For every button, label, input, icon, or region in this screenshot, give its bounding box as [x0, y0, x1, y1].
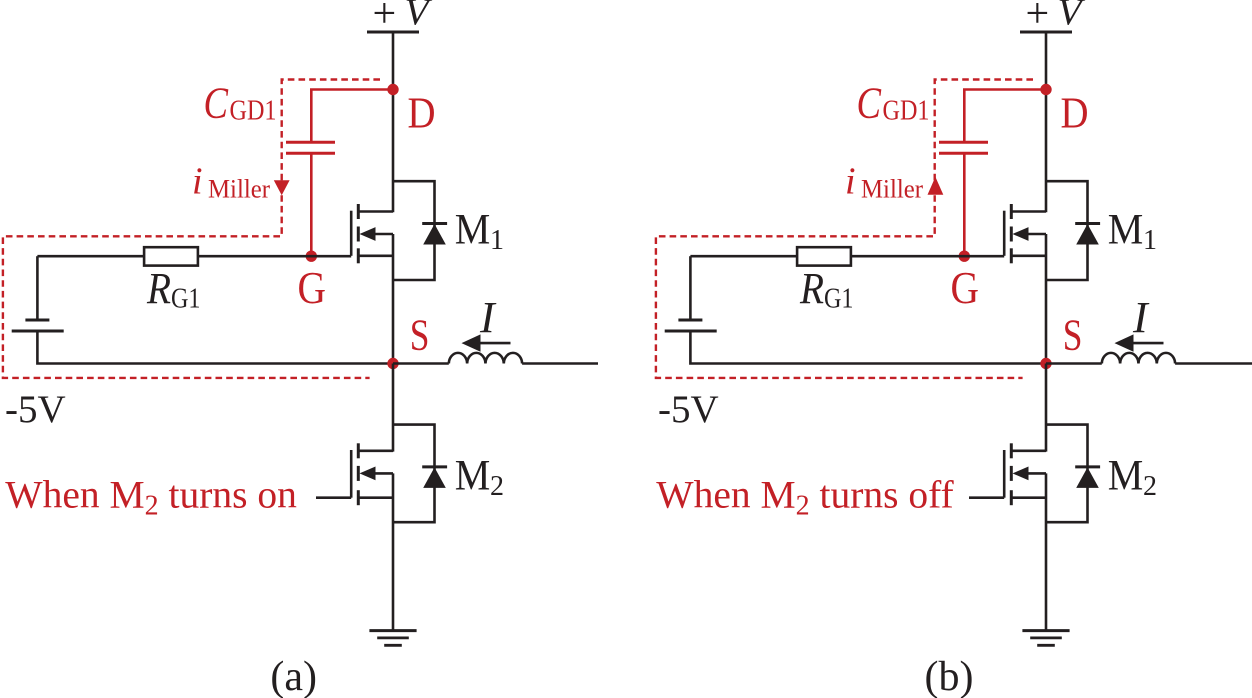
wire: node S to inductor	[1046, 362, 1102, 365]
wire: M1 source lead	[1011, 255, 1046, 258]
svg-text:When M2 turns on: When M2 turns on	[5, 472, 297, 521]
resistor R_G1	[144, 247, 198, 265]
transistor M2 gate bar	[350, 450, 353, 498]
svg-text:(a): (a)	[270, 654, 317, 698]
wire: M2 drain tee to body-diode branch	[1046, 425, 1088, 523]
wire: red C_GD1 bottom to node G	[963, 153, 966, 256]
battery -5V source	[12, 320, 64, 331]
capacitor C_GD1	[286, 142, 335, 153]
svg-text:S: S	[1063, 311, 1083, 360]
wire: M2 drain lead	[358, 449, 393, 452]
label R_G1	[146, 264, 200, 315]
svg-text:i: i	[192, 161, 203, 203]
wire: M1 drain tee to body-diode branch	[1046, 181, 1088, 280]
label R_G1	[799, 264, 853, 315]
wire: battery top lead	[36, 256, 39, 320]
svg-text:+: +	[1026, 0, 1050, 37]
wire: inductor to load	[522, 362, 598, 365]
svg-text:Miller: Miller	[208, 174, 270, 204]
svg-text:When M2 turns off: When M2 turns off	[656, 472, 954, 521]
svg-text:G1: G1	[824, 283, 854, 315]
svg-text:I: I	[479, 293, 497, 342]
label C_GD1	[204, 79, 277, 128]
current I arrow	[1115, 334, 1164, 351]
svg-text:G: G	[951, 263, 980, 313]
transistor M1 channel bars	[357, 204, 360, 263]
body diode of M2	[422, 467, 447, 488]
wire: M1 source down to node S	[392, 234, 395, 364]
current I arrow	[462, 334, 511, 351]
body diode of M1	[1075, 224, 1100, 245]
wire: gate drive rail	[37, 255, 351, 258]
svg-text:S: S	[410, 311, 430, 360]
wire: node S down to M2 drain	[392, 364, 395, 452]
wire: M2 drain lead	[1011, 449, 1046, 452]
svg-text:i: i	[845, 161, 856, 203]
inductor L	[1102, 353, 1175, 364]
capacitor C_GD1	[939, 142, 988, 153]
label i_Miller	[845, 161, 923, 204]
svg-text:V: V	[1058, 0, 1086, 34]
svg-text:M: M	[1108, 207, 1144, 254]
wire: battery top lead	[689, 256, 692, 320]
label M2	[455, 452, 504, 502]
wire: +V rail down to M1 drain	[392, 32, 395, 212]
svg-text:I: I	[1132, 293, 1150, 342]
wire: red C_GD1 bottom to node G	[310, 153, 313, 256]
label M1	[1108, 207, 1157, 257]
wire: battery bottom to node S	[37, 331, 393, 364]
red dashed Miller current loop	[656, 80, 1033, 378]
wire: battery bottom to node S	[690, 331, 1046, 364]
wire: M1 drain lead	[358, 210, 393, 213]
i_Miller direction arrowhead	[274, 180, 290, 195]
ground symbol	[1022, 631, 1069, 646]
transistor M1 gate bar	[1003, 211, 1006, 256]
transistor M1 channel bars	[1010, 204, 1013, 263]
transistor M1 gate bar	[350, 211, 353, 256]
wire: M1 drain tee to body-diode branch	[393, 181, 435, 280]
node S (red junction dot)	[1040, 358, 1051, 369]
svg-text:M: M	[455, 207, 491, 254]
wire: M2 source to ground	[392, 473, 395, 630]
svg-text:Miller: Miller	[861, 174, 923, 204]
wire: M2 source lead	[1011, 496, 1046, 499]
wire: node S down to M2 drain	[1045, 364, 1048, 452]
node G (red junction dot)	[306, 251, 317, 262]
wire: M2 gate lead	[316, 496, 351, 499]
node D (red junction dot)	[387, 84, 398, 95]
svg-text:G1: G1	[171, 283, 201, 315]
svg-text:-5V: -5V	[5, 388, 66, 431]
svg-text:2: 2	[490, 471, 504, 502]
label M2	[1108, 452, 1157, 502]
label C_GD1	[857, 79, 930, 128]
transistor M2 body arrow	[360, 467, 394, 481]
transistor M2 channel bars	[1010, 443, 1013, 505]
wire: red drain tap (node D to C_GD1 top)	[964, 90, 1046, 143]
transistor M1 body arrow	[1013, 227, 1047, 241]
wire: M2 source to ground	[1045, 473, 1048, 630]
body diode of M2	[1075, 467, 1100, 488]
label +V	[373, 0, 433, 37]
svg-text:R: R	[799, 264, 824, 313]
svg-text:GD1: GD1	[230, 96, 277, 127]
wire: M2 drain tee to body-diode branch	[393, 425, 435, 523]
node D (red junction dot)	[1040, 84, 1051, 95]
svg-text:D: D	[1061, 89, 1089, 138]
wire: gate drive rail	[690, 255, 1004, 258]
svg-text:+: +	[373, 0, 397, 37]
node S (red junction dot)	[387, 358, 398, 369]
wire: M1 drain lead	[1011, 210, 1046, 213]
svg-text:2: 2	[1143, 471, 1157, 502]
transistor M2 gate bar	[1003, 450, 1006, 498]
wire: M2 source lead	[358, 496, 393, 499]
node G (red junction dot)	[959, 251, 970, 262]
battery -5V source	[665, 320, 717, 331]
wire: M1 source lead	[358, 255, 393, 258]
transistor M2 channel bars	[357, 443, 360, 505]
label i_Miller	[192, 161, 270, 204]
svg-text:(b): (b)	[925, 654, 974, 698]
label M1	[455, 207, 504, 257]
power supply +V bar	[367, 31, 419, 34]
label +V	[1026, 0, 1086, 37]
svg-text:M: M	[455, 452, 491, 499]
svg-text:1: 1	[1143, 225, 1157, 256]
transistor M2 body arrow	[1013, 467, 1047, 481]
svg-text:G: G	[298, 263, 327, 313]
svg-text:GD1: GD1	[883, 96, 930, 127]
svg-text:D: D	[408, 89, 436, 138]
wire: M2 gate lead	[969, 496, 1004, 499]
red dashed Miller current loop	[3, 80, 380, 378]
svg-text:R: R	[146, 264, 171, 313]
ground symbol	[369, 631, 416, 646]
svg-text:V: V	[405, 0, 433, 34]
resistor R_G1	[797, 247, 851, 265]
wire: M1 source down to node S	[1045, 234, 1048, 364]
svg-text:-5V: -5V	[658, 388, 719, 431]
wire: node S to inductor	[393, 362, 449, 365]
svg-text:C: C	[857, 79, 882, 128]
transistor M1 body arrow	[360, 227, 394, 241]
power supply +V bar	[1020, 31, 1072, 34]
body diode of M1	[422, 224, 447, 245]
svg-text:M: M	[1108, 452, 1144, 499]
svg-text:1: 1	[490, 225, 504, 256]
svg-text:C: C	[204, 79, 229, 128]
wire: inductor to load	[1175, 362, 1252, 365]
wire: red drain tap (node D to C_GD1 top)	[311, 90, 393, 143]
wire: +V rail down to M1 drain	[1045, 32, 1048, 212]
i_Miller direction arrowhead	[928, 177, 944, 195]
inductor L	[449, 353, 522, 364]
